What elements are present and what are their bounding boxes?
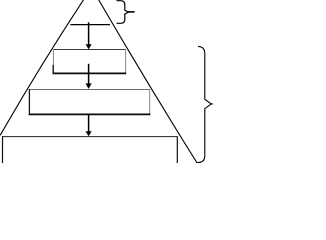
arrow A3 shaft: [88, 114, 90, 132]
arrow A3 head: [86, 131, 92, 136]
arrow A1 head: [86, 44, 92, 49]
level divider line: [70, 24, 110, 26]
box B3: [2, 136, 177, 163]
pyramid left side: [0, 0, 84, 135]
box B2: [29, 89, 151, 114]
brace small: [117, 1, 129, 24]
arrow A2 head: [86, 83, 92, 89]
box B1: [53, 49, 127, 73]
brace large: [197, 46, 213, 162]
pyramid right side: [99, 0, 198, 163]
arrow A1 shaft: [88, 22, 90, 45]
brace small leader line: [127, 11, 134, 13]
arrow A2 shaft: [88, 64, 90, 84]
